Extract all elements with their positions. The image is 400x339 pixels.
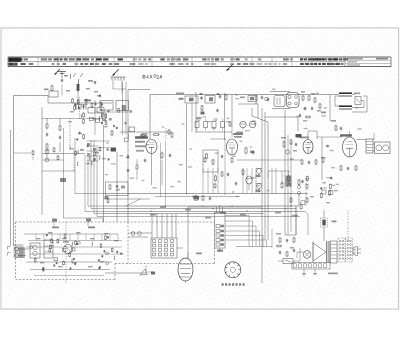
- V2 below resistor: [215, 175, 217, 176]
- wire V2 anode up: [231, 121, 233, 137]
- V3 label: [300, 137, 309, 139]
- component designator smears midfield: [251, 177, 255, 178]
- pilot junction mark: [151, 272, 155, 275]
- V1 coupling caps: [127, 155, 129, 156]
- male chassis connector: [215, 213, 226, 249]
- AF coupling caps right: [298, 179, 300, 180]
- tuner vertical stubs: [35, 234, 37, 241]
- wire long bus y211: [117, 211, 305, 213]
- AF amplifier triode V3: [303, 140, 313, 154]
- tuner label 1: [52, 227, 59, 229]
- voltage selector box B: [346, 238, 353, 262]
- V2 right resistors: [245, 147, 247, 148]
- V1 label: [135, 136, 148, 138]
- transformer secondary winding: [331, 241, 338, 263]
- parts list left block: [9, 58, 22, 62]
- IF stage decoupling R11: [201, 105, 203, 106]
- power transformer primary triangle: [313, 243, 326, 261]
- wire long bus y206: [104, 205, 300, 207]
- left component chain C4: [46, 133, 48, 134]
- EM84 base lines: [179, 276, 192, 278]
- V2 screen box: [203, 150, 218, 172]
- AF chain x307: [306, 197, 308, 198]
- tuner tuning gang: [64, 245, 73, 254]
- front end label smears: [66, 90, 70, 92]
- wire transformer to rectifier: [297, 251, 303, 253]
- bottom wire y273: [105, 272, 146, 274]
- mains plug: [353, 247, 358, 256]
- lower-left small parts: [105, 196, 109, 199]
- switch wire down: [112, 81, 114, 90]
- IF small cluster left of IFT2: [255, 95, 257, 96]
- parts above block: [88, 80, 93, 82]
- aerial input coil L1: [77, 79, 80, 86]
- tuner label smears: [36, 238, 41, 239]
- stage screen vertical: [195, 92, 197, 132]
- AGC diode pair a: [257, 169, 262, 174]
- left outline vertical x42: [41, 107, 43, 215]
- wire row2 rail: [195, 131, 232, 133]
- connector label: [217, 250, 223, 252]
- voltage test box V7: [205, 96, 215, 104]
- tuner trimmers on top edge: [52, 219, 57, 222]
- transformer terminal row: [292, 263, 330, 270]
- voltage box V8: [248, 96, 257, 102]
- wire ratio det connections: [352, 94, 355, 96]
- cable bundle to terminal strip: [151, 214, 153, 238]
- AM IF transformer 1 label: [176, 93, 184, 95]
- parts list row divider: [8, 61, 345, 63]
- aerial wire into tuner: [19, 248, 31, 250]
- IF can parts under rail: [129, 127, 135, 132]
- volume potentiometer arrow: [140, 269, 148, 275]
- parts list strip frame: [8, 56, 391, 58]
- V2 junction dots: [232, 191, 233, 192]
- dense block infill: [109, 118, 112, 121]
- IF amplifier valve EF89 V2: [227, 139, 238, 155]
- terminal strip TS1: [151, 238, 177, 258]
- left component chain C5: [59, 136, 61, 137]
- wire IF rail verticals: [224, 93, 226, 140]
- ratio detector elco C31: [339, 105, 352, 107]
- IF stage drop wires: [202, 168, 204, 194]
- mixer-oscillator valve ECC85 V1: [146, 140, 157, 154]
- tuner label 2: [88, 227, 95, 229]
- wire mid-left horizontals: [42, 153, 85, 155]
- V1 anode small cap: [169, 154, 171, 155]
- voltage box label: [179, 98, 184, 100]
- capacitor C10: [219, 95, 221, 96]
- wire vertical x186: [186, 104, 188, 194]
- caps between boxes: [201, 96, 203, 97]
- AM oscillator coil assembly: [79, 131, 81, 132]
- detector diode D1: [355, 97, 361, 105]
- voltage selector link dashed: [347, 210, 349, 241]
- ladder bottom run: [236, 246, 272, 248]
- second IF transformer (ratio detector primary): [287, 93, 300, 108]
- vertical bundle x285-295: [284, 110, 286, 235]
- row2 labels: [236, 132, 243, 134]
- detector label smears: [301, 91, 305, 93]
- tuner components cluster: [75, 239, 77, 242]
- chassis code label B4X02A: [143, 74, 162, 78]
- screen grid blob: [122, 105, 126, 111]
- AM-FM aerial input sockets: [15, 247, 19, 251]
- tone control cluster: [329, 183, 331, 184]
- wire x103 vertical: [103, 125, 105, 222]
- wire second rail y104: [238, 103, 258, 105]
- negative feedback wire: [321, 137, 323, 180]
- wire bus risers right: [295, 206, 297, 235]
- V1 grid components: [111, 148, 117, 152]
- left link part: [32, 150, 34, 151]
- AGC diode pair b: [257, 184, 262, 189]
- ratio detector elco C30: [339, 92, 352, 94]
- parts list right box: [344, 57, 346, 67]
- V1 cathode resistor: [136, 164, 138, 165]
- antenna coupling capacitor C1: [61, 79, 63, 80]
- power section filter caps: [279, 237, 281, 238]
- socket label B9A pin numbers: [222, 283, 224, 285]
- power small parts: [293, 249, 295, 250]
- wire y196 stub: [155, 196, 240, 198]
- small parts near V1: [140, 135, 141, 137]
- left component chain R2: [46, 123, 48, 124]
- valve socket view B9A: [225, 262, 241, 278]
- detector caps: [304, 107, 306, 108]
- AM detector parts: [283, 141, 285, 142]
- oscillator labels: [68, 121, 72, 122]
- V2 cathode resistor 2: [231, 157, 233, 158]
- V2 screen resistor: [206, 153, 208, 154]
- wire left vertical 2: [10, 130, 12, 246]
- transformer core: [326, 241, 328, 263]
- pen mark annotation 2: [113, 69, 119, 75]
- AF signal wire y160: [237, 159, 302, 161]
- tuner internal dashed divider x128: [127, 222, 129, 264]
- label M: [80, 149, 84, 151]
- wire speaker connections: [373, 143, 375, 145]
- tuning indicator EM84 V5: [178, 258, 193, 281]
- AK annotation: [296, 134, 302, 138]
- tone switch dashes: [305, 180, 307, 206]
- row2 small circles: [198, 118, 200, 120]
- V4 label: [340, 134, 352, 136]
- switch rung extensions: [99, 140, 111, 142]
- V4 grid feed wire: [317, 136, 342, 138]
- volume control cluster: [194, 196, 199, 200]
- tap wire: [113, 88, 126, 90]
- oscillator section switch ticks: [75, 105, 77, 110]
- wire ladder to power cluster: [271, 229, 273, 248]
- row2 tube symbols: [240, 121, 246, 127]
- V1 side labels: [135, 141, 145, 143]
- tuner unit dashed enclosure L-shape: [16, 221, 215, 223]
- V4 cathode network: [340, 165, 342, 166]
- tuner internal wires: [26, 261, 112, 263]
- wire antenna to mixer: [47, 96, 49, 104]
- IF can frame corner: [128, 89, 150, 91]
- V2 cathode resistor: [212, 159, 214, 160]
- voltage test box V6: [185, 96, 198, 103]
- bus transition diagonal: [126, 199, 141, 207]
- parts list segment ticks: [37, 57, 39, 67]
- transformer ground symbols: [303, 269, 305, 274]
- wire long bus y216.5: [130, 216, 300, 218]
- tone cluster labels: [305, 178, 309, 179]
- left chain wire: [46, 118, 48, 123]
- transformer dial-drive circle: [303, 251, 311, 259]
- marks above box V7: [200, 93, 203, 95]
- wire vertical from rail x150: [149, 95, 151, 140]
- wire AF frame: [268, 170, 290, 172]
- mixer valve label: [84, 100, 91, 102]
- band selector lower cluster: [90, 161, 93, 165]
- parts list voltage block: [300, 58, 303, 60]
- V1 anode resistor: [161, 152, 163, 153]
- detector resistors R20 R21: [302, 95, 304, 96]
- bundle corner turns: [64, 218, 104, 222]
- IF stage C11: [217, 109, 219, 110]
- wire det output down: [252, 108, 268, 240]
- wire main top rail: [150, 94, 338, 96]
- rectifier: [283, 259, 293, 264]
- component designator smears top: [235, 98, 239, 99]
- connector top entry wires: [216, 207, 218, 213]
- tuner extra parts: [100, 242, 102, 245]
- label TS: [321, 112, 326, 114]
- switch column parts: [87, 140, 99, 142]
- wire x117 vertical: [116, 152, 118, 222]
- V2 grid cap: [221, 155, 223, 156]
- antenna down wire: [61, 85, 63, 96]
- left component chain R3: [46, 143, 48, 144]
- ferrite rod coil S1: [69, 74, 72, 79]
- pickup terminals: [298, 186, 301, 189]
- wire x128 vertical: [127, 132, 129, 222]
- V3 components below: [301, 159, 303, 160]
- volume pot box: [106, 182, 129, 196]
- switch wafer dashes: [73, 150, 75, 172]
- bus value labels: [160, 206, 166, 208]
- left component chain R4: [59, 125, 61, 126]
- resistor R10: [225, 94, 227, 95]
- wire stub under connector: [219, 248, 221, 252]
- input attenuator box: [49, 91, 58, 97]
- tuner coil pack 2: [44, 240, 53, 258]
- band selector labels: [70, 148, 74, 149]
- output transformer T2: [366, 139, 373, 153]
- band switch contact row: [111, 77, 113, 81]
- oscillator trimmer box 1: [88, 108, 95, 114]
- power wires: [285, 234, 296, 236]
- part right of V1: [171, 132, 173, 133]
- FM tuner front section cluster: [91, 103, 93, 104]
- connector section frame: [188, 206, 262, 208]
- wire strip to EM84: [177, 247, 183, 249]
- small marks left of screen pair: [102, 119, 106, 121]
- left diode parts: [45, 150, 49, 154]
- wire top-left bus: [14, 95, 49, 97]
- tuner wires out right: [128, 232, 152, 234]
- V2 grid feed wire: [210, 138, 226, 140]
- pen mark annotation 3: [227, 64, 233, 70]
- front-end box right: [116, 101, 129, 111]
- mains fuse F1: [321, 218, 328, 227]
- wire y171 left: [42, 170, 75, 172]
- V3 anode wire: [308, 131, 317, 140]
- loudspeaker LS: [375, 142, 391, 154]
- bus junction dots: [127, 208, 128, 209]
- det secondary wire: [265, 116, 298, 118]
- fuse rating label: [332, 221, 337, 223]
- band switch vertical bundle: [63, 128, 65, 218]
- AF lower resistor: [290, 197, 292, 198]
- pen mark annotation 1: [55, 69, 60, 74]
- front-end dashed divider: [79, 97, 81, 120]
- heater wiring arrows top: [73, 73, 76, 77]
- tuner dashed divider: [65, 222, 67, 283]
- AGC diode: [246, 176, 252, 184]
- wire V1 down leads: [151, 154, 153, 186]
- AM-FM IF amp row 2 cluster: [195, 122, 199, 128]
- V4 grid parts: [335, 125, 337, 126]
- FM dipole antenna: [61, 72, 63, 79]
- vertical bundle right of middle: [261, 108, 263, 283]
- AF volume control VR1: [286, 176, 292, 187]
- parts list text row 1: [9, 58, 13, 60]
- wire long bus y208.5: [128, 208, 296, 210]
- output pentode EL84 V4: [343, 137, 357, 157]
- mains label: [328, 273, 338, 275]
- resistor R1: [51, 85, 53, 86]
- voltage selector box A: [338, 238, 345, 262]
- wire long bus y213.5: [104, 213, 263, 215]
- label 7Y2: [60, 178, 66, 182]
- oscillator trimmer box 2: [97, 108, 104, 114]
- tuner coil pack 1: [30, 243, 40, 258]
- screen grid wire pair: [122, 82, 124, 135]
- detector extra parts: [319, 103, 321, 104]
- front-end enclosure lines: [95, 111, 128, 113]
- dial lamps: [131, 232, 135, 236]
- wire ratio det return loop: [352, 96, 367, 112]
- wire y199: [104, 198, 151, 200]
- V2 lower parts: [221, 171, 223, 172]
- parts list text row 2: [9, 63, 13, 65]
- coupling cap to V4: [326, 145, 327, 147]
- wire y118: [42, 118, 103, 120]
- wire long bus y193.5: [104, 193, 309, 195]
- V2 label: [233, 133, 243, 135]
- connector ladder wires: [225, 215, 249, 217]
- front-end box left: [100, 101, 113, 111]
